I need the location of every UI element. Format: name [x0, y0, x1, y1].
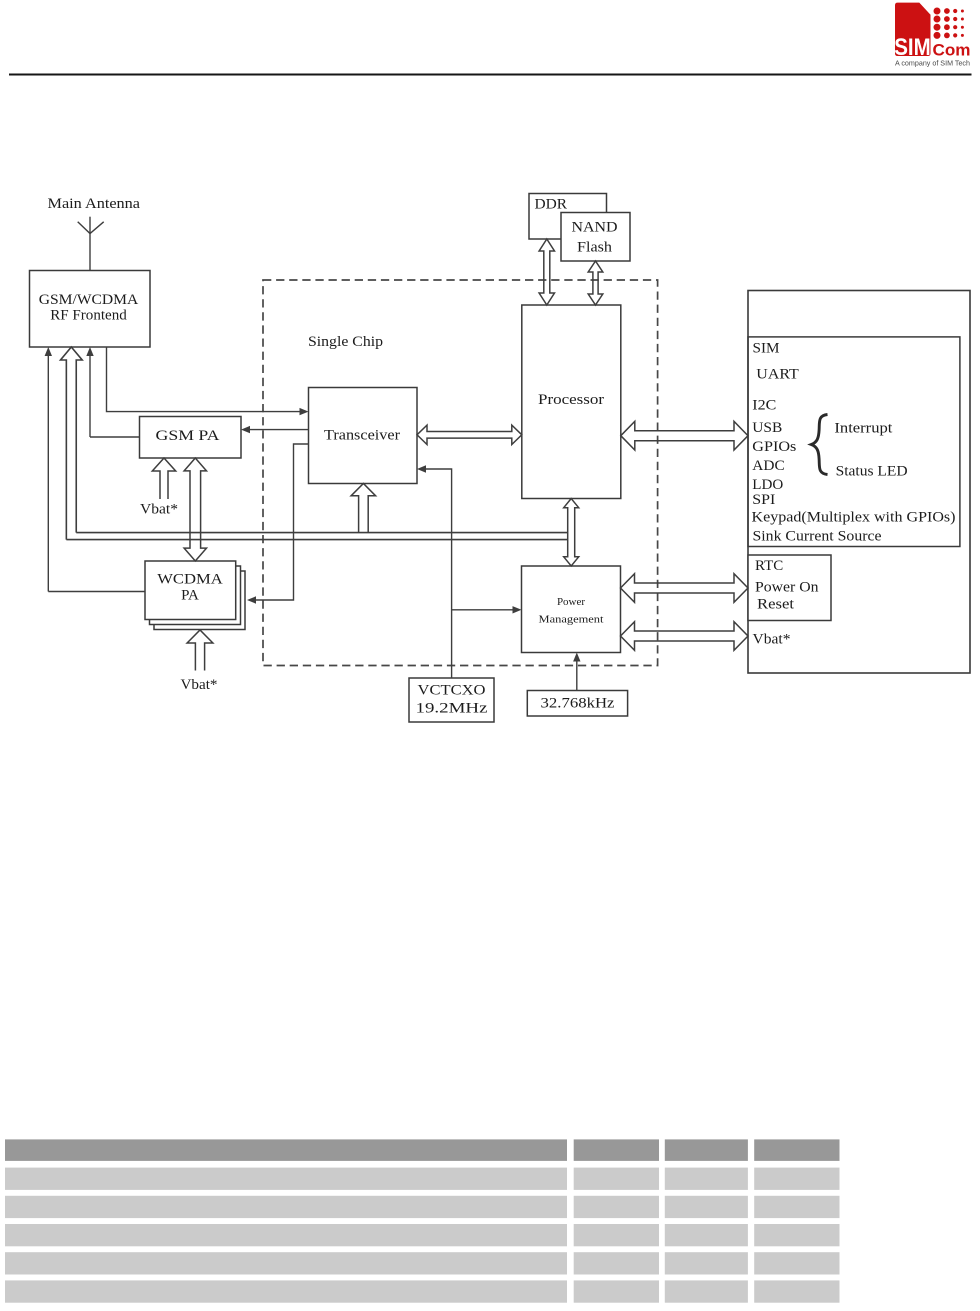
block GSM/WCDMA RF Frontend — [30, 271, 151, 348]
svg-text:LDO: LDO — [752, 477, 783, 493]
block NAND Flash — [561, 213, 630, 262]
svg-text:ADC: ADC — [752, 458, 784, 474]
svg-text:WCDMA: WCDMA — [157, 572, 223, 588]
svg-text:19.2MHz: 19.2MHz — [416, 701, 488, 717]
svg-text:Com: Com — [933, 41, 971, 60]
svg-text:Flash: Flash — [577, 240, 613, 256]
svg-text:GSM/WCDMA: GSM/WCDMA — [39, 292, 139, 308]
block 32.768kHz — [527, 691, 627, 717]
arrow Vbat* to WCDMA PA — [187, 630, 213, 671]
svg-text:Vbat*: Vbat* — [181, 677, 218, 693]
block Transceiver — [309, 388, 418, 484]
svg-text:Processor: Processor — [538, 392, 604, 408]
svg-text:Single Chip: Single Chip — [308, 334, 383, 350]
arrow DDR - Processor — [539, 239, 554, 305]
svg-text:Vbat*: Vbat* — [140, 502, 178, 518]
block Processor — [522, 305, 621, 499]
svg-text:Keypad(Multiplex with GPIOs): Keypad(Multiplex with GPIOs) — [752, 510, 956, 526]
arrow NAND Flash - Processor — [588, 261, 603, 305]
wire VCTCXO to Transceiver — [426, 469, 452, 678]
wire WCDMA PA to RF frontend — [47, 356, 49, 592]
arrow GSM PA - WCDMA PA — [184, 458, 206, 561]
svg-text:Management: Management — [539, 614, 604, 626]
svg-text:GSM PA: GSM PA — [156, 428, 220, 444]
svg-text:SPI: SPI — [752, 492, 775, 508]
wire Transceiver to GSM PA — [250, 429, 309, 431]
brace for Interrupt / Status LED — [811, 415, 827, 475]
dashed Single Chip boundary — [263, 280, 658, 666]
arrow Power Management - RTC box — [621, 574, 749, 603]
arrow Processor - Power Management — [564, 499, 579, 567]
wire GSM PA to RF frontend — [89, 356, 91, 437]
block WCDMA PA (stacked) — [154, 571, 245, 630]
svg-text:NAND: NAND — [572, 220, 618, 236]
svg-text:USB: USB — [752, 420, 782, 436]
antenna symbol — [89, 217, 91, 271]
svg-text:Vbat*: Vbat* — [753, 632, 791, 648]
block Power Management — [522, 566, 621, 653]
arrow Processor - interface box — [621, 421, 748, 450]
svg-text:32.768kHz: 32.768kHz — [541, 696, 615, 712]
block VCTCXO 19.2MHz — [409, 678, 494, 722]
svg-text:Power: Power — [557, 596, 585, 608]
svg-text:VCTCXO: VCTCXO — [418, 683, 486, 699]
summary table (grey rows) — [5, 1139, 840, 1302]
header rule — [9, 74, 972, 76]
svg-text:UART: UART — [756, 367, 799, 383]
arrow Power Management - Vbat* — [621, 622, 749, 651]
svg-text:Sink Current Source: Sink Current Source — [753, 529, 882, 545]
wire 32.768kHz to Power Management — [576, 662, 578, 691]
svg-text:SIM: SIM — [894, 34, 931, 61]
svg-text:I2C: I2C — [752, 398, 776, 414]
block DDR — [529, 194, 607, 240]
svg-text:RF Frontend: RF Frontend — [50, 308, 127, 324]
svg-text:DDR: DDR — [535, 197, 568, 213]
svg-text:Power On: Power On — [755, 579, 819, 595]
svg-text:Reset: Reset — [757, 597, 795, 613]
svg-text:GPIOs: GPIOs — [752, 439, 796, 455]
arrow Vbat* to GSM PA — [152, 458, 175, 499]
svg-text:RTC: RTC — [755, 558, 783, 574]
svg-text:Status LED: Status LED — [836, 464, 908, 480]
svg-text:PA: PA — [181, 588, 199, 604]
bus arrow into Transceiver — [351, 484, 376, 533]
svg-text:A company of SIM Tech: A company of SIM Tech — [895, 61, 970, 68]
arrow Transceiver - Processor — [417, 425, 522, 444]
SIMCom logo — [894, 3, 970, 68]
svg-text:Transceiver: Transceiver — [324, 428, 400, 444]
svg-text:Main Antenna: Main Antenna — [48, 196, 141, 212]
block GSM PA — [140, 417, 242, 459]
Vbat bus horizontal rails — [66, 539, 567, 541]
wire RF frontend to Transceiver — [107, 347, 300, 412]
outer peripheral box — [748, 291, 970, 674]
wire Transceiver to WCDMA PA — [256, 444, 309, 600]
block RTC Power On Reset — [748, 555, 831, 621]
wire VCTCXO to Power Management — [452, 609, 513, 611]
svg-text:SIM: SIM — [753, 341, 780, 357]
svg-text:Interrupt: Interrupt — [834, 421, 893, 437]
inner interface list box — [748, 337, 960, 547]
bus arrow into RF frontend — [61, 347, 83, 540]
